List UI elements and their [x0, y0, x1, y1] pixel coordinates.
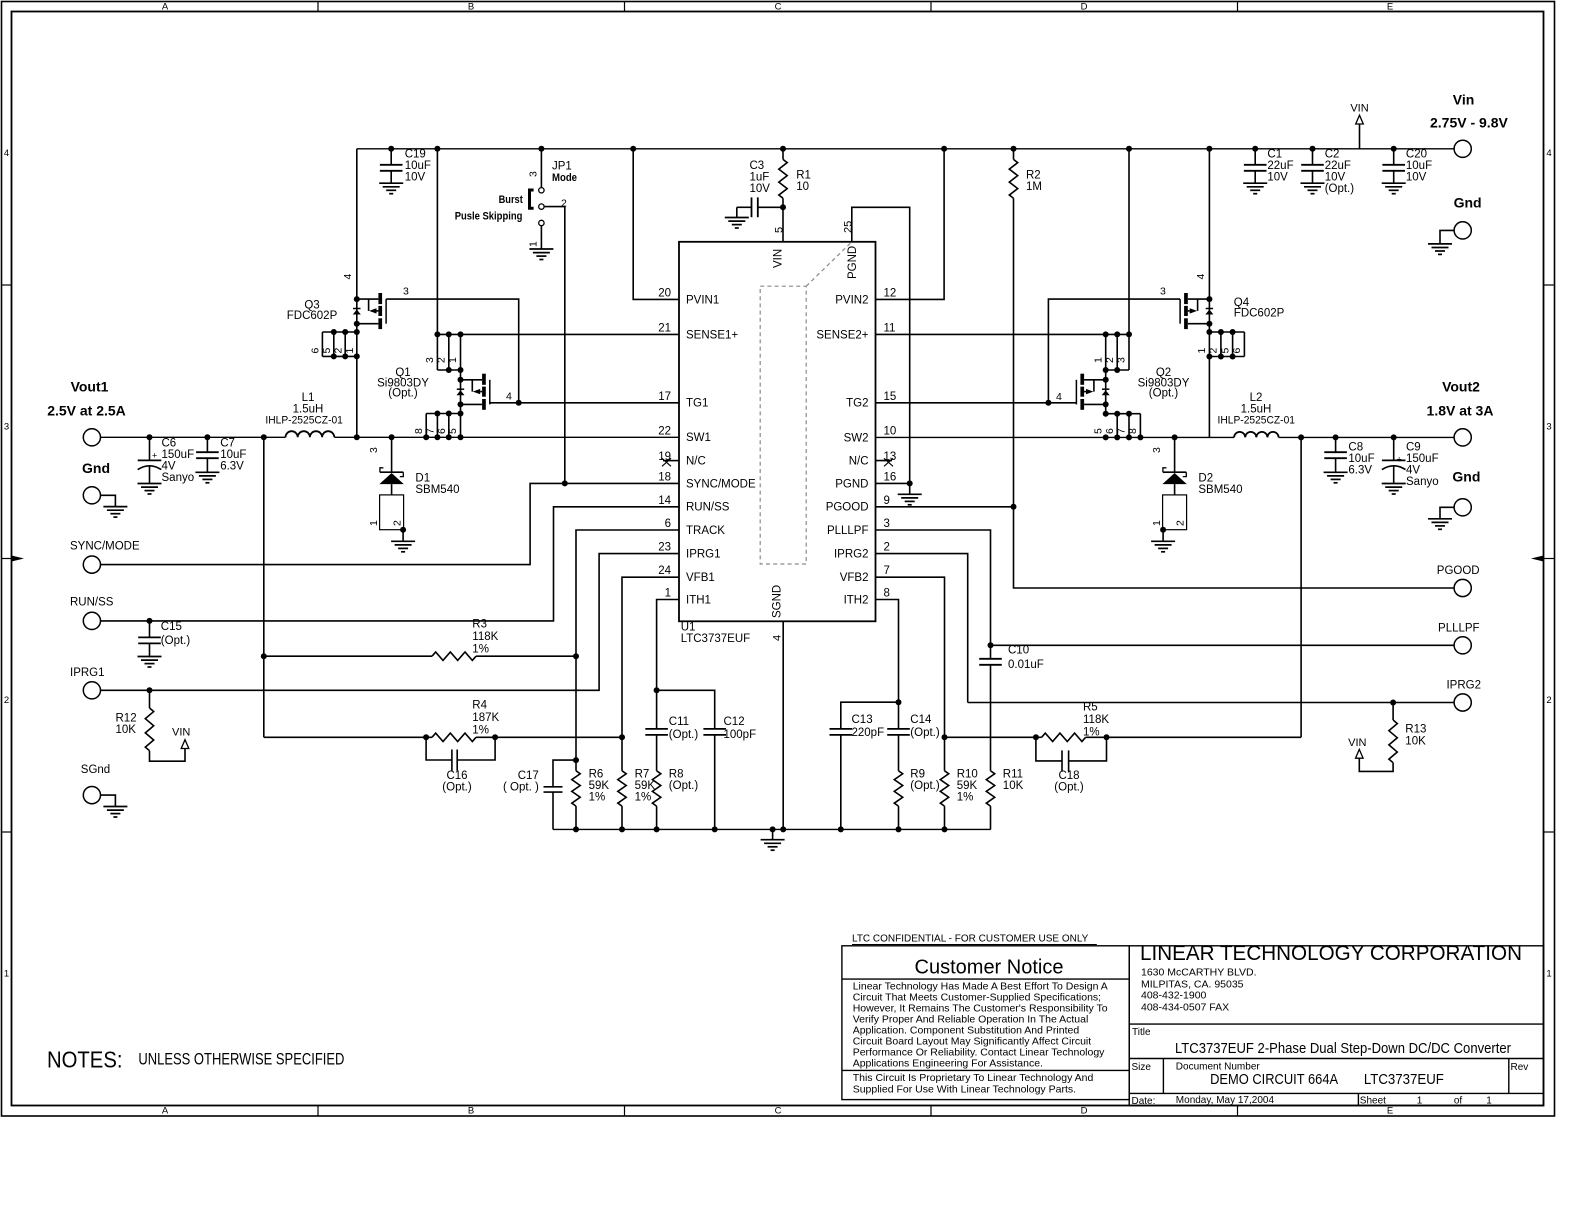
wire TG2	[876, 402, 1077, 404]
svg-text:VFB2: VFB2	[840, 572, 869, 584]
wire PGND pin16	[876, 482, 910, 484]
capacitor C13 branch	[841, 702, 899, 729]
wire PVIN1 from rail	[630, 146, 636, 152]
svg-text:VFB1: VFB1	[686, 572, 715, 584]
wire SENSE2+ riser to rail	[1126, 146, 1132, 152]
svg-text:1: 1	[4, 969, 9, 980]
svg-text:22: 22	[658, 425, 671, 437]
svg-text:4: 4	[506, 391, 512, 403]
ground	[1324, 472, 1348, 483]
svg-text:MILPITAS, CA. 95035: MILPITAS, CA. 95035	[1141, 978, 1244, 990]
svg-text:R10: R10	[957, 769, 978, 781]
svg-text:R9: R9	[910, 769, 925, 781]
svg-text:10: 10	[884, 425, 897, 437]
svg-text:14: 14	[658, 495, 671, 507]
svg-text:5: 5	[321, 348, 333, 354]
svg-text:RUN/SS: RUN/SS	[70, 597, 114, 609]
svg-text:C6: C6	[162, 438, 177, 450]
svg-text:7: 7	[1115, 428, 1127, 434]
svg-text:10uF: 10uF	[1348, 453, 1374, 465]
svg-text:PGND: PGND	[847, 246, 859, 279]
svg-text:C9: C9	[1406, 442, 1421, 454]
svg-text:1%: 1%	[472, 643, 489, 655]
ground	[1151, 541, 1175, 552]
svg-text:6: 6	[436, 428, 448, 434]
resistor R7	[621, 737, 623, 771]
capacitor C16	[426, 737, 452, 760]
ground	[138, 484, 162, 495]
capacitor C3	[758, 206, 783, 208]
svg-text:187K: 187K	[472, 712, 499, 724]
svg-text:24: 24	[658, 565, 671, 577]
svg-text:2: 2	[436, 357, 448, 363]
title block	[1129, 946, 1543, 1106]
svg-text:L2: L2	[1250, 392, 1263, 404]
svg-text:Gnd: Gnd	[82, 460, 110, 476]
svg-text:C19: C19	[405, 149, 426, 161]
svg-text:(Opt.): (Opt.)	[910, 727, 940, 739]
svg-text:3: 3	[4, 422, 9, 433]
resistor R4	[264, 736, 432, 738]
svg-text:IHLP-2525CZ-01: IHLP-2525CZ-01	[265, 414, 343, 426]
svg-text:6.3V: 6.3V	[220, 461, 244, 473]
svg-text:(Opt.): (Opt.)	[161, 635, 191, 647]
pin13 N/C stub	[876, 460, 893, 462]
svg-text:R4: R4	[472, 700, 487, 712]
svg-text:(Opt.): (Opt.)	[669, 780, 699, 792]
capacitor C2	[1310, 146, 1316, 152]
wire RUN/SS	[101, 507, 680, 621]
svg-text:2: 2	[1175, 520, 1187, 526]
resistor R12	[147, 687, 153, 693]
capacitor C20	[1391, 146, 1397, 152]
svg-text:D: D	[1081, 1106, 1088, 1117]
svg-text:VIN: VIN	[1348, 737, 1366, 749]
jumper JP1 Mode	[538, 146, 544, 152]
wire Vout1/SW1 rail	[101, 436, 286, 438]
svg-text:R11: R11	[1003, 769, 1023, 781]
node Vout2 terminal	[1454, 429, 1471, 446]
svg-text:Applications Engineering For A: Applications Engineering For Assistance.	[853, 1057, 1043, 1069]
svg-text:SYNC/MODE: SYNC/MODE	[70, 541, 140, 553]
svg-text:4: 4	[342, 274, 354, 280]
svg-text:2: 2	[4, 695, 9, 706]
wire SENSE1+	[437, 333, 679, 335]
svg-text:R1: R1	[796, 170, 811, 182]
svg-text:1: 1	[368, 520, 380, 526]
svg-text:15: 15	[884, 391, 897, 403]
ground	[195, 472, 219, 483]
svg-text:10uF: 10uF	[405, 160, 431, 172]
svg-text:+: +	[152, 450, 157, 460]
svg-text:Gnd: Gnd	[1454, 194, 1482, 210]
svg-text:Sanyo: Sanyo	[162, 472, 195, 484]
svg-text:SYNC/MODE: SYNC/MODE	[686, 478, 756, 490]
ground	[391, 541, 415, 552]
svg-text:1: 1	[1486, 1096, 1492, 1107]
svg-text:1: 1	[1196, 348, 1208, 354]
svg-text:8: 8	[884, 588, 890, 600]
svg-text:SW2: SW2	[844, 432, 869, 444]
svg-text:VIN: VIN	[773, 249, 785, 268]
diode D1 SBM540	[389, 434, 395, 440]
svg-text:LTC3737EUF 2-Phase Dual Step-D: LTC3737EUF 2-Phase Dual Step-Down DC/DC …	[1175, 1040, 1511, 1057]
svg-text:3: 3	[528, 171, 540, 177]
svg-text:Vout2: Vout2	[1442, 379, 1480, 395]
svg-text:10V: 10V	[1325, 172, 1346, 184]
svg-text:PGOOD: PGOOD	[1437, 565, 1480, 577]
svg-text:17: 17	[658, 391, 671, 403]
ground	[103, 807, 127, 818]
node IPRG1 terminal	[83, 682, 100, 699]
svg-text:100pF: 100pF	[724, 729, 757, 741]
Q2 pin cluster 5/6/7/8	[1106, 413, 1141, 415]
svg-text:4: 4	[1195, 274, 1207, 280]
svg-text:C: C	[775, 1106, 782, 1117]
svg-text:LINEAR TECHNOLOGY CORPORATION: LINEAR TECHNOLOGY CORPORATION	[1140, 942, 1522, 965]
svg-text:8: 8	[1127, 428, 1139, 434]
svg-text:Customer Notice: Customer Notice	[915, 957, 1064, 979]
svg-text:1: 1	[1546, 969, 1551, 980]
capacitor C8	[1333, 434, 1339, 440]
svg-text:PLLLPF: PLLLPF	[827, 525, 869, 537]
svg-text:23: 23	[658, 542, 671, 554]
svg-text:C10: C10	[1008, 645, 1029, 657]
capacitor C11 + resistor R8 branch	[656, 690, 658, 729]
wire VFB2	[876, 577, 945, 737]
svg-text:R6: R6	[589, 769, 604, 781]
svg-text:4: 4	[1546, 148, 1551, 159]
transistor Q4 FDC602P	[1206, 146, 1212, 152]
ground	[103, 507, 127, 517]
svg-text:UNLESS OTHERWISE SPECIFIED: UNLESS OTHERWISE SPECIFIED	[138, 1049, 344, 1068]
svg-text:R7: R7	[635, 769, 650, 781]
svg-text:2.75V - 9.8V: 2.75V - 9.8V	[1430, 115, 1508, 131]
svg-text:B: B	[468, 1106, 474, 1117]
svg-text:10V: 10V	[750, 183, 771, 195]
svg-text:R12: R12	[116, 713, 137, 725]
svg-text:1: 1	[665, 588, 671, 600]
svg-text:Size: Size	[1132, 1062, 1152, 1073]
svg-text:TRACK: TRACK	[686, 525, 725, 537]
resistor R10	[944, 737, 946, 771]
node PGOOD terminal	[1454, 579, 1471, 596]
wire IPRG1	[101, 554, 680, 691]
svg-text:1M: 1M	[1026, 181, 1042, 193]
svg-text:(Opt.): (Opt.)	[1149, 388, 1179, 400]
capacitor C15	[147, 618, 153, 624]
wire PGND pin25 routing	[852, 207, 910, 483]
wire SENSE2+	[876, 333, 1130, 335]
svg-text:1: 1	[528, 241, 540, 247]
wire TG1	[490, 402, 679, 404]
resistor R3	[264, 655, 432, 657]
svg-text:11: 11	[884, 322, 896, 334]
svg-text:VIN: VIN	[172, 727, 190, 739]
svg-text:5: 5	[1093, 428, 1105, 434]
svg-text:E: E	[1387, 2, 1393, 13]
transistor Q2 Si9803DY	[1105, 370, 1107, 414]
svg-text:(Opt.): (Opt.)	[669, 729, 699, 741]
svg-text:R13: R13	[1405, 724, 1426, 736]
transistor Q1 Si9803DY	[460, 370, 462, 414]
svg-text:SGnd: SGnd	[81, 764, 110, 776]
Q3 pin cluster 6/5/2/1	[322, 331, 356, 333]
svg-text:4: 4	[771, 635, 783, 641]
svg-text:( Opt. ): ( Opt. )	[503, 782, 539, 794]
svg-text:U1: U1	[681, 622, 696, 634]
svg-text:ITH2: ITH2	[844, 594, 869, 606]
ground	[529, 249, 553, 260]
svg-text:1%: 1%	[1083, 726, 1100, 738]
svg-text:1: 1	[1151, 520, 1163, 526]
svg-text:ITH1: ITH1	[686, 594, 711, 606]
svg-text:Gnd: Gnd	[1452, 468, 1480, 484]
node IPRG2 terminal	[1454, 694, 1471, 711]
node RUN/SS terminal	[83, 612, 100, 629]
svg-text:4V: 4V	[162, 461, 176, 473]
svg-text:IHLP-2525CZ-01: IHLP-2525CZ-01	[1218, 414, 1296, 426]
svg-text:1%: 1%	[635, 792, 652, 804]
op-amp / controller IC U1 LTC3737EUF	[679, 242, 876, 622]
svg-text:408-434-0507 FAX: 408-434-0507 FAX	[1141, 1001, 1229, 1013]
svg-text:LTC3737EUF: LTC3737EUF	[1364, 1071, 1444, 1088]
capacitor C18	[1036, 737, 1062, 761]
svg-text:3: 3	[1115, 357, 1127, 363]
wire TRACK	[576, 530, 679, 656]
resistor R11	[986, 771, 994, 806]
ground	[1301, 183, 1325, 194]
svg-text:A: A	[162, 2, 169, 13]
svg-text:1%: 1%	[472, 724, 489, 736]
svg-text:118K: 118K	[1083, 714, 1109, 726]
wire ITH2	[876, 600, 899, 729]
svg-text:C3: C3	[750, 160, 765, 172]
wire SENSE1+ riser from rail	[434, 146, 440, 152]
svg-text:Pusle Skipping: Pusle Skipping	[455, 210, 523, 222]
svg-text:1: 1	[1417, 1096, 1423, 1107]
svg-text:SGND: SGND	[772, 585, 784, 618]
wire PGOOD	[876, 506, 1014, 508]
svg-text:NOTES:: NOTES:	[47, 1047, 123, 1073]
svg-text:IPRG1: IPRG1	[70, 667, 105, 679]
svg-text:408-432-1900: 408-432-1900	[1141, 990, 1207, 1002]
svg-text:21: 21	[658, 322, 671, 334]
svg-text:C1: C1	[1267, 149, 1282, 161]
svg-text:Burst: Burst	[499, 194, 523, 206]
svg-text:3: 3	[424, 357, 436, 363]
svg-text:C7: C7	[220, 438, 235, 450]
svg-text:3: 3	[1160, 286, 1166, 298]
svg-text:10K: 10K	[1003, 780, 1024, 792]
svg-text:This Circuit Is Proprietary To: This Circuit Is Proprietary To Linear Te…	[853, 1072, 1094, 1084]
svg-text:Mode: Mode	[552, 172, 577, 184]
ground	[1382, 484, 1406, 495]
capacitor C12 branch	[657, 690, 715, 729]
svg-text:220pF: 220pF	[852, 727, 885, 739]
wire VFB1	[622, 577, 679, 737]
bottom SGND rail	[553, 828, 991, 830]
svg-text:118K: 118K	[472, 631, 498, 643]
svg-text:1uF: 1uF	[750, 172, 770, 184]
svg-text:SBM540: SBM540	[415, 484, 459, 496]
resistor R13	[1390, 700, 1396, 706]
resistor R2	[1011, 146, 1017, 152]
svg-text:7: 7	[424, 428, 436, 434]
node Gnd terminal right	[1454, 499, 1471, 516]
resistor R1	[780, 146, 786, 152]
svg-text:(Opt.): (Opt.)	[442, 782, 472, 794]
svg-text:22uF: 22uF	[1325, 160, 1351, 172]
svg-text:59K: 59K	[589, 780, 610, 792]
svg-text:10uF: 10uF	[1406, 160, 1432, 172]
svg-text:C12: C12	[724, 716, 745, 728]
svg-text:2: 2	[332, 348, 344, 354]
resistor R5	[945, 736, 1036, 738]
svg-text:B: B	[468, 2, 474, 13]
capacitor C19	[388, 146, 394, 152]
svg-text:Date:: Date:	[1132, 1096, 1156, 1107]
capacitor C9 (electrolytic)	[1391, 434, 1397, 440]
ground	[898, 494, 922, 505]
wire SGND pin 4	[782, 621, 784, 829]
svg-text:SW1: SW1	[686, 432, 711, 444]
svg-text:Vin: Vin	[1453, 91, 1475, 107]
svg-text:Supplied For Use With Linear T: Supplied For Use With Linear Technology …	[853, 1083, 1076, 1095]
svg-text:1630 McCARTHY BLVD.: 1630 McCARTHY BLVD.	[1141, 967, 1257, 979]
zone arrows mid left/right	[12, 556, 25, 562]
svg-text:C13: C13	[852, 714, 873, 726]
svg-text:59K: 59K	[635, 780, 656, 792]
svg-text:10: 10	[796, 181, 809, 193]
svg-text:Sanyo: Sanyo	[1406, 476, 1439, 488]
transistor Q2 pin cluster 1/2/3	[1103, 331, 1109, 337]
svg-text:PVIN2: PVIN2	[835, 294, 868, 306]
svg-text:PGND: PGND	[835, 478, 868, 490]
svg-text:0.01uF: 0.01uF	[1008, 659, 1044, 671]
svg-text:C8: C8	[1348, 442, 1363, 454]
svg-text:Title: Title	[1132, 1027, 1151, 1038]
svg-text:1%: 1%	[957, 792, 974, 804]
svg-text:TG1: TG1	[686, 398, 708, 410]
svg-text:9: 9	[884, 495, 890, 507]
exposed pad dashed outline	[760, 242, 852, 564]
svg-text:N/C: N/C	[686, 456, 706, 468]
node Gnd terminal left	[83, 487, 100, 504]
svg-text:C17: C17	[518, 770, 539, 782]
svg-text:8: 8	[413, 428, 425, 434]
svg-text:2: 2	[561, 198, 567, 210]
wire SYNC/MODE	[101, 483, 680, 564]
wire Q4 gate to TG2	[1048, 299, 1180, 403]
svg-text:PLLLPF: PLLLPF	[1438, 622, 1480, 634]
svg-text:JP1: JP1	[552, 160, 572, 172]
node SGnd terminal	[83, 787, 100, 804]
capacitor C10	[990, 645, 992, 659]
svg-text:C2: C2	[1325, 149, 1340, 161]
wire PLLLPF	[876, 530, 991, 645]
svg-text:150uF: 150uF	[1406, 453, 1439, 465]
Q1 pin cluster 8/7/6/5	[426, 413, 460, 415]
customer notice box	[842, 946, 1129, 1100]
resistor R6	[575, 656, 577, 771]
svg-text:3: 3	[403, 286, 409, 298]
svg-text:SENSE2+: SENSE2+	[816, 329, 868, 341]
svg-text:PGOOD: PGOOD	[826, 502, 869, 514]
svg-text:1: 1	[344, 348, 356, 354]
transistor Q3 FDC602P	[356, 149, 358, 438]
svg-text:2: 2	[1546, 695, 1551, 706]
svg-text:(Opt.): (Opt.)	[910, 780, 940, 792]
ground	[379, 183, 403, 194]
ground	[138, 657, 162, 668]
wire PVIN2 to rail	[941, 146, 947, 152]
svg-text:IPRG2: IPRG2	[1446, 680, 1481, 692]
svg-text:LTC3737EUF: LTC3737EUF	[681, 633, 750, 645]
wire VIN top rail	[357, 148, 1454, 150]
svg-text:PVIN1: PVIN1	[686, 294, 719, 306]
node PLLLPF terminal	[1454, 637, 1471, 654]
capacitor C1	[1252, 146, 1258, 152]
svg-text:E: E	[1387, 1106, 1393, 1117]
capacitor C17	[553, 760, 576, 787]
svg-text:R5: R5	[1083, 702, 1098, 714]
svg-text:Rev: Rev	[1511, 1062, 1529, 1073]
svg-text:7: 7	[884, 565, 890, 577]
svg-text:4: 4	[4, 148, 9, 159]
inductor L1	[286, 431, 335, 437]
svg-text:6: 6	[310, 348, 322, 354]
pin19 N/C stub	[663, 460, 679, 462]
svg-text:Sheet: Sheet	[1360, 1096, 1386, 1107]
svg-text:10uF: 10uF	[220, 449, 246, 461]
svg-text:2: 2	[1208, 348, 1220, 354]
svg-text:Monday, May 17,2004: Monday, May 17,2004	[1176, 1095, 1275, 1106]
ground	[761, 840, 785, 851]
svg-text:5: 5	[447, 428, 459, 434]
svg-text:(Opt.): (Opt.)	[1054, 782, 1084, 794]
svg-text:3: 3	[1546, 422, 1551, 433]
svg-text:1: 1	[1093, 357, 1105, 363]
node SYNC/MODE terminal	[83, 556, 100, 573]
wire ITH1	[657, 600, 679, 691]
svg-text:4V: 4V	[1406, 465, 1420, 477]
svg-text:L1: L1	[302, 392, 315, 404]
wire VFB1 sense riser	[261, 434, 267, 440]
svg-text:FDC602P: FDC602P	[287, 310, 338, 322]
svg-text:D2: D2	[1198, 473, 1213, 485]
svg-text:6.3V: 6.3V	[1348, 465, 1372, 477]
svg-text:R8: R8	[669, 769, 684, 781]
capacitor C7	[204, 434, 210, 440]
svg-text:C: C	[775, 2, 782, 13]
node Vout1 terminal	[83, 429, 100, 446]
svg-text:10V: 10V	[1406, 172, 1427, 184]
svg-text:10V: 10V	[1267, 172, 1288, 184]
svg-text:3: 3	[884, 518, 890, 530]
svg-text:C20: C20	[1406, 149, 1427, 161]
svg-text:4: 4	[1056, 391, 1062, 403]
svg-text:2.5V at 2.5A: 2.5V at 2.5A	[47, 403, 126, 419]
svg-text:C14: C14	[910, 714, 932, 726]
svg-text:10K: 10K	[116, 724, 137, 736]
node Gnd terminal top right	[1454, 222, 1471, 239]
svg-text:59K: 59K	[957, 780, 978, 792]
ground	[725, 218, 749, 229]
svg-text:R2: R2	[1026, 170, 1041, 182]
svg-text:TG2: TG2	[846, 398, 868, 410]
svg-text:6: 6	[665, 518, 671, 530]
